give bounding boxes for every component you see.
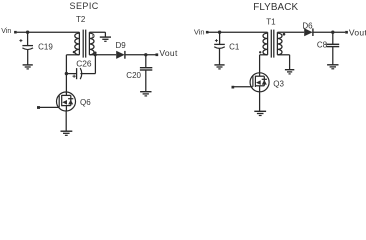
svg-text:Q6: Q6 xyxy=(80,98,91,107)
svg-text:C20: C20 xyxy=(126,71,141,80)
svg-text:D9: D9 xyxy=(116,41,127,50)
svg-text:Vin: Vin xyxy=(1,28,11,35)
svg-text:T1: T1 xyxy=(266,18,276,27)
svg-text:C8: C8 xyxy=(317,41,328,50)
svg-text:T2: T2 xyxy=(76,15,86,24)
svg-text:C19: C19 xyxy=(38,43,53,52)
svg-text:FLYBACK: FLYBACK xyxy=(253,2,298,13)
svg-text:Vout: Vout xyxy=(349,27,366,37)
svg-text:Vout: Vout xyxy=(159,48,178,58)
svg-text:C1: C1 xyxy=(229,42,240,51)
svg-text:Q3: Q3 xyxy=(273,79,284,88)
svg-text:SEPIC: SEPIC xyxy=(70,1,99,11)
svg-text:Vin: Vin xyxy=(194,28,205,37)
svg-text:D6: D6 xyxy=(302,22,313,31)
svg-text:C26: C26 xyxy=(76,59,92,69)
